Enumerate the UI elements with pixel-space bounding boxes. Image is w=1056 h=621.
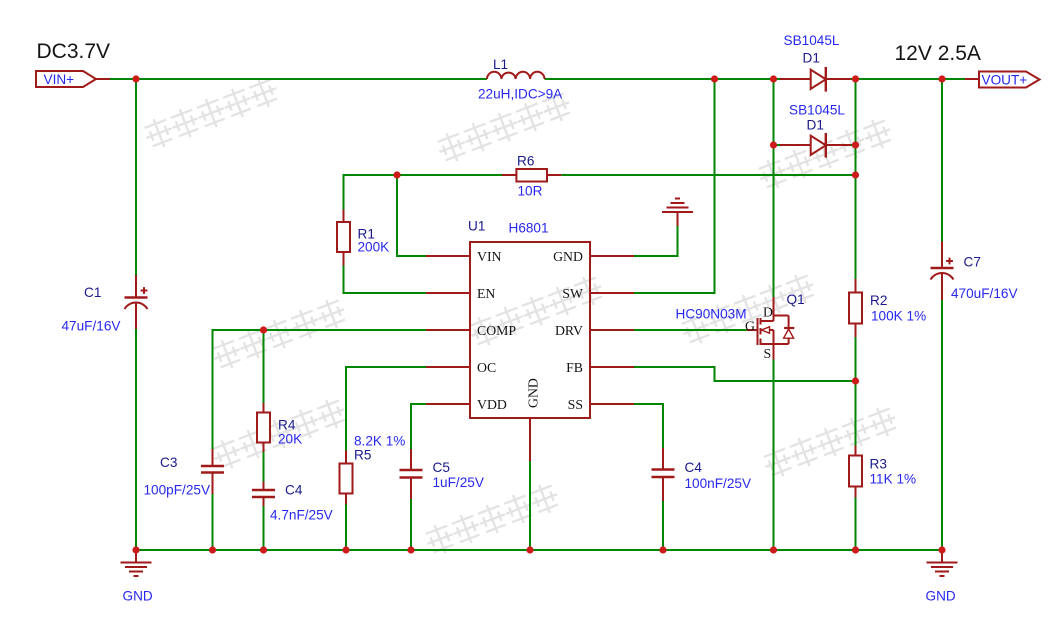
wire GND pin row	[634, 255, 678, 257]
svg-text:VIN: VIN	[477, 249, 502, 264]
wire R1 top	[343, 174, 345, 210]
svg-text:D1: D1	[803, 51, 820, 66]
node diode2 cathode	[852, 141, 859, 148]
pin U1 EN stub	[426, 292, 470, 294]
watermark tiles	[141, 74, 901, 558]
svg-text:H6801: H6801	[509, 221, 549, 236]
wire EN row	[343, 292, 427, 294]
dark red component strokes	[36, 67, 1040, 576]
svg-text:VOUT+: VOUT+	[982, 73, 1028, 88]
port VIN+	[36, 71, 96, 87]
svg-text:L1: L1	[493, 57, 508, 72]
svg-text:1uF/25V: 1uF/25V	[433, 475, 484, 490]
ground symbol right	[927, 550, 958, 576]
wire Q1 source drop	[773, 360, 775, 552]
wire top rail mid	[545, 78, 781, 80]
svg-text:C5: C5	[433, 460, 450, 475]
wire R4-C4 link	[263, 452, 265, 482]
wire VIN+ stub	[96, 78, 110, 80]
svg-text:200K: 200K	[358, 240, 390, 255]
wire FB drop	[714, 366, 716, 382]
svg-text:GND: GND	[526, 378, 541, 408]
wire OC row	[346, 366, 426, 368]
svg-text:VIN+: VIN+	[44, 72, 75, 87]
svg-text:11K 1%: 11K 1%	[870, 472, 917, 487]
svg-text:R6: R6	[517, 154, 534, 169]
svg-text:22uH,IDC>9A: 22uH,IDC>9A	[478, 87, 563, 102]
svg-text:SB1045L: SB1045L	[789, 103, 845, 118]
svg-text:R2: R2	[870, 293, 887, 308]
svg-text:10R: 10R	[518, 184, 543, 199]
diode D1 top	[780, 67, 851, 92]
wire C3 lower	[212, 494, 214, 551]
wire SW riser	[714, 79, 716, 294]
svg-text:C3: C3	[160, 455, 177, 470]
wire DRV row	[634, 329, 747, 331]
node gnd C4n	[659, 546, 666, 553]
node R6 right	[852, 171, 859, 178]
wire IC gnd drop	[529, 461, 531, 551]
pin U1 SW stub	[590, 292, 634, 294]
wire top rail left	[109, 78, 487, 80]
wire output riser upper	[855, 79, 857, 279]
wire VDD row	[411, 403, 426, 405]
svg-text:EN: EN	[477, 286, 495, 301]
svg-text:C4: C4	[285, 483, 303, 498]
node diode anode top	[770, 75, 777, 82]
earth symbol top	[662, 199, 693, 227]
svg-text:R3: R3	[870, 457, 887, 472]
wire FB row	[634, 366, 716, 368]
node gnd C7	[938, 546, 945, 553]
resistor R3	[849, 446, 862, 498]
pin U1 GND bottom stub	[529, 418, 531, 461]
capacitor C4	[252, 482, 275, 507]
pin U1 COMP stub	[426, 329, 470, 331]
svg-text:R4: R4	[278, 418, 296, 433]
node gnd C3	[209, 546, 216, 553]
svg-text:COMP: COMP	[477, 323, 516, 338]
resistor R1	[337, 210, 350, 266]
svg-text:4.7nF/25V: 4.7nF/25V	[270, 508, 333, 523]
capacitor C1	[125, 275, 148, 329]
svg-text:20K: 20K	[278, 432, 302, 447]
wire Q1 drain riser	[773, 79, 775, 297]
node gnd C5	[407, 546, 414, 553]
wire C5 lower	[410, 499, 412, 551]
transistor Q1	[747, 297, 795, 360]
svg-text:SS: SS	[568, 397, 583, 412]
node C7 top	[938, 75, 945, 82]
resistor R5	[340, 451, 353, 505]
svg-text:100K 1%: 100K 1%	[871, 309, 926, 324]
node gnd U1	[526, 546, 533, 553]
capacitor C4 100nF	[652, 448, 675, 501]
wire earth riser	[677, 226, 679, 257]
svg-text:Q1: Q1	[787, 292, 805, 307]
capacitor C5	[400, 449, 423, 499]
svg-text:470uF/16V: 470uF/16V	[951, 286, 1018, 301]
svg-text:HC90N03M: HC90N03M	[676, 307, 747, 322]
node gnd C4	[260, 546, 267, 553]
svg-text:GND: GND	[553, 249, 583, 264]
wire C1 branch upper	[135, 79, 137, 275]
capacitor C7	[931, 242, 954, 301]
wire C1 branch lower	[135, 329, 137, 551]
ground symbol left	[121, 550, 152, 576]
wire C7 lower	[941, 300, 943, 551]
wire VIN riser	[396, 175, 398, 257]
wire C4 lower	[263, 506, 265, 551]
node diode2 anode	[770, 141, 777, 148]
pin U1 DRV stub	[590, 329, 634, 331]
svg-text:100pF/25V: 100pF/25V	[144, 483, 211, 498]
node gnd R3	[852, 546, 859, 553]
node gnd Q1	[770, 546, 777, 553]
svg-text:GND: GND	[123, 589, 153, 604]
wire FB bus	[714, 380, 856, 382]
wire C3 riser	[212, 329, 214, 449]
pin U1 SS stub	[590, 403, 634, 405]
svg-text:100nF/25V: 100nF/25V	[685, 476, 752, 491]
pin U1 VIN stub	[426, 255, 470, 257]
svg-text:C4: C4	[685, 460, 703, 475]
svg-text:SW: SW	[562, 286, 583, 301]
node VIN/C1	[132, 75, 139, 82]
port VOUT+	[979, 72, 1040, 88]
svg-text:FB: FB	[566, 360, 583, 375]
pin U1 OC stub	[426, 366, 470, 368]
svg-text:C7: C7	[964, 255, 981, 270]
wire diode2 left	[774, 144, 782, 146]
resistor R6	[502, 169, 561, 182]
svg-text:SB1045L: SB1045L	[784, 33, 840, 48]
wire R2-R3 link	[855, 337, 857, 446]
resistor R4	[257, 403, 270, 452]
node diode cathode top	[852, 75, 859, 82]
wire C4n lower	[662, 501, 664, 551]
wire R5 riser	[345, 366, 347, 451]
wire R3 lower	[855, 498, 857, 552]
svg-text:VDD: VDD	[477, 397, 507, 412]
svg-text:OC: OC	[477, 360, 496, 375]
wire top rail right	[851, 78, 965, 80]
svg-text:D: D	[763, 305, 773, 320]
resistor R2	[849, 279, 862, 337]
node gnd R5	[342, 546, 349, 553]
wire SW row	[634, 292, 715, 294]
node FB divider	[852, 377, 859, 384]
svg-text:U1: U1	[468, 219, 485, 234]
wire VOUT+ stub	[965, 78, 979, 80]
wire VIN row	[396, 255, 426, 257]
wire SS row	[634, 403, 663, 405]
wire R5 lower	[345, 505, 347, 552]
node gnd C1	[132, 546, 139, 553]
wire R6 row left	[344, 174, 503, 176]
svg-text:DC3.7V: DC3.7V	[37, 40, 111, 63]
wire C7 riser	[941, 79, 943, 242]
IC U1 body	[470, 242, 590, 418]
wire C4n riser	[662, 403, 664, 448]
wire R1 bottom to EN	[343, 266, 345, 295]
wire COMP row	[213, 329, 427, 331]
svg-text:S: S	[764, 346, 772, 361]
svg-text:8.2K 1%: 8.2K 1%	[354, 434, 405, 449]
svg-text:G: G	[745, 319, 755, 334]
svg-text:GND: GND	[926, 589, 956, 604]
node COMP R4	[260, 326, 267, 333]
green wires	[109, 79, 965, 551]
svg-text:D1: D1	[807, 118, 824, 133]
svg-text:12V 2.5A: 12V 2.5A	[895, 42, 981, 65]
pin U1 VDD stub	[426, 403, 470, 405]
wire diode2 right	[851, 144, 856, 146]
wire R4 riser	[263, 330, 265, 403]
node SW riser top	[711, 75, 718, 82]
wire C5 riser	[410, 403, 412, 449]
inductor L1	[487, 72, 545, 79]
node R6 VIN junction	[393, 171, 400, 178]
svg-text:C1: C1	[84, 285, 101, 300]
svg-text:R5: R5	[354, 448, 371, 463]
wire R6 row right	[561, 174, 855, 176]
wire gnd rail	[136, 549, 942, 551]
diode D1 second	[780, 133, 851, 158]
svg-text:47uF/16V: 47uF/16V	[62, 319, 121, 334]
svg-text:DRV: DRV	[555, 323, 583, 338]
pin U1 GND stub	[590, 255, 634, 257]
pin U1 FB stub	[590, 366, 634, 368]
capacitor C3	[201, 449, 224, 494]
